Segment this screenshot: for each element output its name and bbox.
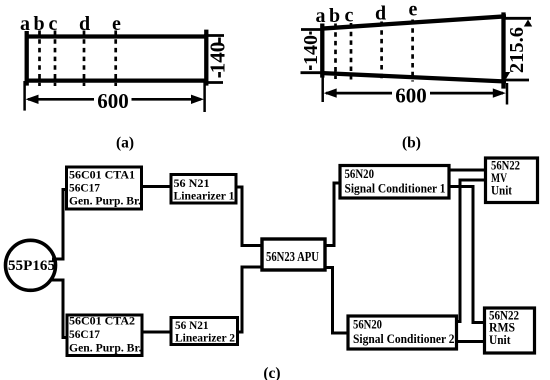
svg-text:(c): (c)	[263, 365, 280, 380]
svg-text:a: a	[316, 5, 326, 27]
dimension 215.6 (b)	[502, 18, 533, 80]
box 56N23 APU	[262, 239, 325, 270]
wire CTA1 to Linearizer1	[142, 185, 172, 188]
svg-text:(a): (a)	[116, 135, 134, 152]
wire Signal Conditioner 1 to RMS unit	[449, 187, 485, 323]
box 56N20 Signal Conditioner 2	[348, 316, 457, 349]
svg-text:56C01 CTA2: 56C01 CTA2	[69, 314, 135, 328]
dimension 600 (a)	[25, 81, 205, 113]
box 56C01 CTA1	[67, 167, 142, 209]
label d (b)	[375, 3, 386, 25]
probe circle 55P165	[6, 240, 56, 290]
section line d (b)	[380, 22, 383, 81]
wire APU to Signal Conditioner 1	[325, 183, 340, 246]
svg-text:d: d	[79, 13, 90, 35]
section line e (a)	[114, 31, 117, 87]
section line b (a)	[38, 31, 41, 87]
section line e (b)	[411, 20, 414, 82]
wire Linearizer2 to APU	[238, 267, 263, 332]
label e (b)	[409, 0, 418, 21]
svg-text:Signal Conditioner 1: Signal Conditioner 1	[345, 182, 446, 196]
dimension 140 (b)	[300, 30, 324, 73]
wire Signal Conditioner 1 to MV unit	[449, 169, 486, 172]
svg-text:215.6: 215.6	[506, 27, 528, 73]
label b (a)	[33, 13, 44, 35]
svg-text:56N20: 56N20	[353, 318, 382, 332]
label a (a)	[20, 13, 30, 35]
svg-text:e: e	[409, 0, 418, 21]
label c (a)	[49, 13, 58, 35]
svg-text:(b): (b)	[402, 135, 421, 152]
svg-text:c: c	[345, 5, 354, 27]
box 56 N21 Linearizer 2	[171, 318, 238, 345]
wire Linearizer1 to APU	[236, 187, 262, 246]
box 56N22 MV Unit	[486, 158, 538, 203]
svg-text:Linearizer 1: Linearizer 1	[174, 189, 235, 203]
box 56C01 CTA2	[67, 314, 142, 356]
svg-text:600: 600	[97, 89, 129, 113]
svg-text:Unit: Unit	[491, 184, 513, 198]
svg-text:a: a	[20, 13, 30, 35]
wire circle to CTA1 box	[52, 190, 68, 260]
svg-text:b: b	[329, 5, 340, 27]
wire APU to Signal Conditioner 2	[325, 268, 348, 334]
caption (a)	[116, 135, 134, 152]
svg-text:56C17: 56C17	[69, 181, 100, 195]
svg-text:56C01 CTA1: 56C01 CTA1	[69, 168, 135, 182]
label e (a)	[112, 13, 121, 35]
label b (b)	[329, 5, 340, 27]
caption (c)	[263, 365, 280, 380]
wire circle to CTA2 box	[52, 280, 69, 338]
wire CTA2 to Linearizer2	[142, 331, 171, 334]
rectangle body (a)	[25, 30, 208, 86]
svg-text:b: b	[33, 13, 44, 35]
box 56N22 RMS Unit	[485, 308, 535, 353]
svg-text:600: 600	[395, 84, 427, 108]
svg-text:Gen. Purp. Br.: Gen. Purp. Br.	[69, 194, 141, 208]
section line d (a)	[83, 31, 86, 87]
svg-text:Gen. Purp. Br.: Gen. Purp. Br.	[69, 341, 142, 355]
svg-text:140: 140	[206, 42, 230, 74]
caption (b)	[402, 135, 421, 152]
svg-text:c: c	[49, 13, 58, 35]
box 56N20 Signal Conditioner 1	[340, 166, 449, 199]
svg-text:56C17: 56C17	[69, 327, 100, 341]
svg-text:140: 140	[300, 35, 322, 65]
svg-text:Signal Conditioner 2: Signal Conditioner 2	[353, 332, 455, 346]
svg-text:Linearizer 2: Linearizer 2	[175, 331, 235, 345]
label d (a)	[79, 13, 90, 35]
svg-text:55P165: 55P165	[8, 258, 55, 274]
dimension 600 (b)	[323, 76, 507, 108]
dimension 140 (a)	[204, 36, 230, 83]
svg-text:e: e	[112, 13, 121, 35]
label a (b)	[316, 5, 326, 27]
trapezoid body (b)	[321, 12, 507, 88]
label c (b)	[345, 5, 354, 27]
svg-text:56N20: 56N20	[345, 167, 375, 181]
section line b (b)	[334, 24, 337, 80]
section line c (a)	[54, 31, 57, 87]
svg-text:d: d	[375, 3, 386, 25]
section line c (b)	[350, 23, 353, 80]
wire Signal Conditioner 2 to RMS unit	[457, 340, 485, 343]
svg-text:Unit: Unit	[489, 333, 511, 347]
svg-text:56N23 APU: 56N23 APU	[266, 249, 319, 264]
wire Signal Conditioner 2 to MV unit	[457, 180, 486, 322]
box 56 N21 Linearizer 1	[171, 175, 236, 204]
